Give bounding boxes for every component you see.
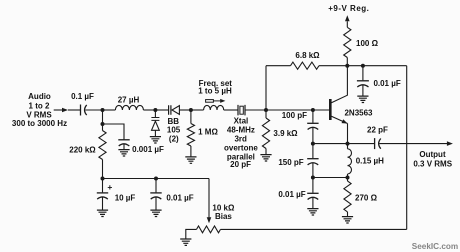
svg-text:0.1 µF: 0.1 µF (71, 92, 94, 101)
svg-text:2N3563: 2N3563 (344, 108, 373, 117)
resistor 220 kOhm (99, 131, 106, 160)
wire H to F (313, 143, 348, 145)
wire 220k to bias row (102, 160, 104, 179)
wire to C 0.01uF bias (155, 179, 157, 193)
capacitor 22 pF (374, 138, 376, 149)
capacitor 0.01 uF bypass (357, 80, 369, 82)
wire I to G (313, 177, 348, 179)
output arrow (447, 141, 453, 146)
wire node A down (102, 110, 104, 124)
wire to C 0.01uF emitter (312, 178, 314, 193)
svg-text:Audio: Audio (28, 92, 51, 101)
wire input (54, 109, 63, 111)
varactor diode D2 BB105 series (169, 105, 171, 114)
node I junction (311, 176, 315, 180)
svg-text:105: 105 (167, 126, 181, 135)
ground at D1 (150, 137, 161, 143)
wire (245, 109, 266, 111)
capacitor 0.01 uF bias (150, 192, 161, 194)
svg-text:10 µF: 10 µF (115, 194, 136, 203)
wire (191, 109, 204, 111)
node rail collector junction (345, 64, 349, 68)
svg-text:1 to 2: 1 to 2 (29, 101, 50, 110)
ground at 10uF (97, 210, 108, 216)
svg-text:Bias: Bias (215, 212, 232, 221)
wire cap to node A (85, 109, 102, 111)
input arrow (62, 108, 68, 113)
wire base (266, 109, 329, 111)
node C junction (189, 108, 193, 112)
svg-text:3rd: 3rd (234, 135, 247, 144)
ground at 3.9k (260, 155, 271, 161)
wire (155, 109, 168, 111)
svg-text:BB: BB (168, 117, 180, 126)
ground at pot (180, 239, 191, 245)
svg-text:3.9 kΩ: 3.9 kΩ (273, 129, 298, 138)
wire pot left to ground (186, 229, 197, 238)
potentiometer 10 kOhm bias (197, 226, 221, 233)
wire right edge (406, 66, 408, 230)
wire (224, 109, 238, 111)
node G junction (346, 176, 350, 180)
wire to C 0.001uF (103, 124, 125, 139)
wire to R 1M (190, 110, 192, 124)
wire to C 0.01uF bypass (362, 66, 364, 81)
svg-text:+9-V Reg.: +9-V Reg. (328, 4, 369, 13)
wire to R 3.9k (265, 110, 267, 118)
capacitor 150 pF (307, 158, 318, 160)
svg-text:(2): (2) (169, 135, 179, 144)
ground at 0.01uF bias (150, 210, 161, 216)
wiper arrow (207, 217, 212, 223)
wire bias row (103, 178, 210, 180)
resistor 100 Ohm (344, 27, 351, 57)
capacitor 0.01 uF emitter (307, 192, 318, 194)
wire 100ohm to rail (346, 58, 348, 66)
node F emitter junction (346, 142, 350, 146)
svg-text:Output: Output (419, 150, 446, 159)
svg-text:220 kΩ: 220 kΩ (69, 145, 96, 154)
svg-text:0.01 µF: 0.01 µF (278, 190, 305, 199)
capacitor 0.1 uF (80, 105, 82, 116)
wire feedback vertical (265, 66, 267, 110)
inductor 27 uH (115, 105, 143, 110)
tuning slug arrow (206, 100, 214, 103)
svg-text:48-MHz: 48-MHz (227, 126, 255, 135)
svg-text:270 Ω: 270 Ω (355, 194, 378, 203)
node D junction (264, 108, 268, 112)
inductor L freq set 1-5uH (204, 105, 224, 110)
ground at 0.001uF (118, 150, 129, 156)
wire rail right (319, 65, 407, 67)
wire to R 270 (347, 178, 349, 182)
ground at bypass cap (357, 96, 368, 102)
resistor 6.8 kOhm (291, 62, 320, 69)
crystal Y1 48 MHz (238, 105, 245, 116)
inductor 0.15 uH (348, 149, 352, 174)
wire to R 220k (102, 124, 104, 131)
ground at 1M (185, 157, 196, 163)
node B junction (153, 108, 157, 112)
svg-text:0.3 V RMS: 0.3 V RMS (413, 159, 452, 168)
node E junction (311, 108, 315, 112)
node A junction (101, 108, 105, 112)
svg-text:SeekIC.com: SeekIC.com (412, 242, 458, 251)
svg-text:overtone: overtone (224, 144, 258, 153)
svg-text:150 pF: 150 pF (278, 158, 303, 167)
svg-text:22 pF: 22 pF (367, 126, 388, 135)
svg-text:100 Ω: 100 Ω (356, 39, 379, 48)
ground at 0.01uF emitter (307, 209, 318, 215)
wire to C 0.1uF (68, 109, 80, 111)
svg-text:1 MΩ: 1 MΩ (198, 127, 218, 136)
resistor 270 Ohm (344, 181, 351, 212)
capacitor 0.001 uF (118, 139, 129, 141)
svg-text:0.001 µF: 0.001 µF (132, 145, 164, 154)
node rail bypass junction (361, 64, 365, 68)
varactor diode D1 BB105 shunt (154, 110, 156, 117)
wire rail left (266, 65, 291, 67)
svg-text:V RMS: V RMS (26, 110, 52, 119)
svg-text:1 to 5 µH: 1 to 5 µH (198, 87, 232, 96)
wire to C 150pF (312, 144, 314, 159)
svg-text:100 pF: 100 pF (282, 111, 307, 120)
wire to +9V (346, 21, 348, 27)
ground at 270 (342, 217, 353, 223)
+9V supply arrow (345, 15, 350, 21)
emitter arrow (342, 119, 348, 123)
svg-text:0.01 µF: 0.01 µF (373, 79, 400, 88)
svg-text:20 pF: 20 pF (230, 160, 251, 169)
wire to C 22pF (348, 143, 375, 145)
wire (143, 109, 155, 111)
node A2 junction (101, 122, 105, 126)
svg-text:300 to 3000 Hz: 300 to 3000 Hz (12, 119, 67, 128)
svg-text:Xtal: Xtal (234, 117, 249, 126)
capacitor 10 uF electrolytic (97, 192, 108, 194)
wire to L 0.15uH (347, 144, 349, 149)
wire output (379, 143, 448, 145)
svg-text:0.15 µH: 0.15 µH (356, 157, 384, 166)
svg-text:0.01 µF: 0.01 µF (166, 194, 193, 203)
wire to C 10uF (102, 179, 104, 193)
svg-text:27 µH: 27 µH (118, 95, 140, 104)
wire to C 100pF (312, 110, 314, 123)
capacitor 100 pF (307, 122, 318, 124)
wire wiper (208, 179, 210, 218)
resistor 3.9 kOhm (262, 118, 269, 149)
node J junction (101, 177, 105, 181)
transistor Q1 2N3563 (329, 99, 332, 120)
svg-text:+: + (107, 182, 112, 192)
wire bottom rail (221, 228, 407, 230)
resistor 1 MOhm (187, 124, 194, 147)
svg-text:6.8 kΩ: 6.8 kΩ (295, 51, 320, 60)
wire (179, 109, 191, 111)
wire emitter down (347, 124, 349, 144)
wire (103, 109, 116, 111)
node H junction (311, 142, 315, 146)
node K junction (154, 177, 158, 181)
